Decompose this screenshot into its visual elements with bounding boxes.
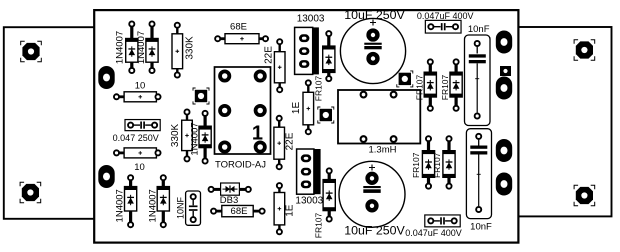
svg-text:1N4007: 1N4007 [114, 31, 125, 64]
svg-text:1N4007: 1N4007 [147, 189, 158, 222]
svg-text:FR107: FR107 [314, 75, 324, 101]
svg-text:13003: 13003 [295, 196, 323, 207]
svg-text:68E: 68E [230, 22, 247, 33]
svg-text:13003: 13003 [297, 14, 325, 25]
svg-text:DB3: DB3 [220, 195, 238, 206]
svg-text:1N4007: 1N4007 [136, 31, 147, 64]
svg-text:10: 10 [134, 162, 145, 173]
svg-text:10uF 250V: 10uF 250V [344, 8, 405, 22]
svg-text:FR107: FR107 [432, 152, 442, 178]
svg-text:330K: 330K [185, 36, 196, 60]
svg-text:68E: 68E [231, 206, 248, 217]
svg-text:FR107: FR107 [440, 74, 450, 100]
svg-text:330K: 330K [170, 123, 181, 147]
svg-text:0.047uF 400V: 0.047uF 400V [405, 228, 462, 238]
svg-text:1N4007: 1N4007 [189, 122, 200, 155]
svg-text:10nF: 10nF [470, 222, 492, 233]
svg-text:1N4007: 1N4007 [115, 189, 126, 222]
svg-text:1.3mH: 1.3mH [369, 144, 397, 155]
svg-text:10NF: 10NF [175, 196, 185, 219]
svg-text:TOROID-AJ: TOROID-AJ [215, 159, 266, 170]
svg-text:0.047 250V: 0.047 250V [113, 133, 159, 143]
svg-text:FR107: FR107 [414, 74, 424, 100]
svg-text:22E: 22E [264, 46, 275, 64]
svg-text:10uF 250V: 10uF 250V [344, 224, 405, 238]
svg-text:22E: 22E [284, 132, 295, 150]
svg-text:FR107: FR107 [313, 212, 323, 238]
svg-text:0.047uF 400V: 0.047uF 400V [417, 11, 474, 21]
svg-text:10: 10 [135, 81, 146, 92]
svg-text:10nF: 10nF [468, 24, 490, 35]
svg-text:FR107: FR107 [411, 152, 421, 178]
svg-text:1: 1 [252, 123, 263, 145]
svg-text:1E: 1E [291, 102, 302, 115]
svg-text:1E: 1E [285, 204, 296, 217]
